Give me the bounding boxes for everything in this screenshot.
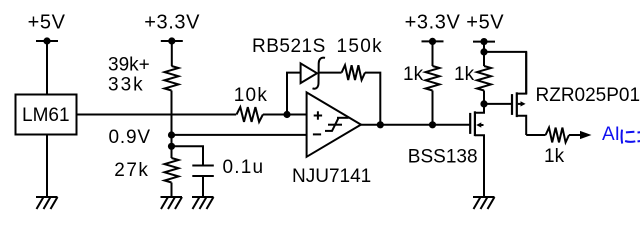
- resistor R 150k: [337, 36, 383, 80]
- label AI (blue): [602, 124, 640, 145]
- svg-text:+3.3V: +3.3V: [144, 12, 200, 34]
- svg-text:+5V: +5V: [28, 12, 66, 34]
- svg-text:RB521S: RB521S: [252, 36, 326, 57]
- wire 1k to output: [432, 91, 434, 125]
- wire drain to PMOS gate: [484, 103, 511, 105]
- wire +5V to PMOS source: [484, 52, 526, 94]
- diode RB521S: [252, 36, 326, 89]
- wire cap branch: [172, 146, 204, 165]
- svg-text:1k: 1k: [454, 64, 475, 85]
- wire divider rail: [171, 91, 173, 159]
- wire cap to ground: [202, 176, 204, 197]
- wire PMOS drain to 1k: [526, 134, 545, 136]
- resistor R 1k (output): [544, 128, 569, 167]
- svg-text:AI: AI: [602, 124, 620, 145]
- svg-text:+5V: +5V: [466, 12, 504, 34]
- wire 1k to drain node: [483, 91, 485, 105]
- svg-text:NJU7141: NJU7141: [292, 166, 371, 187]
- svg-text:33k: 33k: [108, 75, 145, 96]
- wire + input (LM61 out): [78, 114, 237, 116]
- resistor R 27k: [114, 158, 178, 183]
- node cap tee: [168, 143, 175, 150]
- wire +5V rail: [483, 42, 485, 66]
- power +5V (pull-up): [466, 12, 504, 46]
- ground (27k): [161, 197, 183, 209]
- svg-text:RZR025P01: RZR025P01: [536, 85, 640, 106]
- wire 27k to ground: [171, 183, 173, 198]
- wire to arrow: [569, 134, 581, 136]
- transistor Q1 BSS138: [408, 101, 484, 197]
- wire - input: [172, 134, 307, 136]
- capacitor C 0.1u: [192, 157, 264, 178]
- wire +3.3V to resistor: [171, 41, 173, 66]
- arrow output: [580, 131, 592, 139]
- ground (cap): [192, 197, 214, 209]
- wire +5V to LM61: [46, 41, 48, 94]
- power +3.3V (divider): [144, 12, 200, 45]
- op-amp U1 NJU7141: [292, 92, 371, 187]
- transistor Q2 RZR025P01: [512, 52, 640, 135]
- svg-text:0.1u: 0.1u: [223, 157, 265, 178]
- wire 150k to output: [365, 73, 380, 125]
- power +5V (left): [28, 12, 66, 45]
- wire diode to 150k: [319, 72, 342, 74]
- resistor R 1k (3.3V pull-up): [403, 64, 440, 91]
- resistor R 1k (5V pull-up): [454, 64, 491, 91]
- svg-text:150k: 150k: [337, 36, 383, 57]
- wire 10k to op-amp: [263, 114, 307, 116]
- wire output: [361, 124, 470, 126]
- wire +3.3V to 1k: [432, 41, 434, 66]
- node drain: [480, 100, 487, 107]
- wire LM61 to ground: [46, 135, 48, 197]
- node 0.9V: [109, 127, 176, 148]
- power +3.3V (pull-up): [405, 12, 461, 46]
- node feedback on output: [377, 121, 384, 128]
- svg-text:27k: 27k: [114, 160, 149, 181]
- resistor R 39k+33k: [108, 55, 179, 96]
- node +5V branch: [480, 48, 487, 55]
- svg-text:1k: 1k: [403, 64, 424, 85]
- node pull-up on output: [429, 121, 436, 128]
- ground (LM61): [36, 197, 58, 209]
- node feedback junction: [283, 111, 290, 118]
- resistor R 10k: [234, 85, 269, 122]
- svg-text:1k: 1k: [544, 146, 565, 167]
- svg-text:+3.3V: +3.3V: [405, 12, 461, 34]
- wire feedback up: [287, 73, 301, 115]
- svg-text:0.9V: 0.9V: [109, 127, 151, 148]
- sensor LM61: [16, 95, 77, 135]
- svg-text:BSS138: BSS138: [408, 147, 478, 168]
- svg-text:10k: 10k: [234, 85, 269, 106]
- svg-text:39k+: 39k+: [108, 55, 150, 76]
- ground (BSS138): [473, 197, 495, 209]
- svg-text:LM61: LM61: [22, 105, 70, 126]
